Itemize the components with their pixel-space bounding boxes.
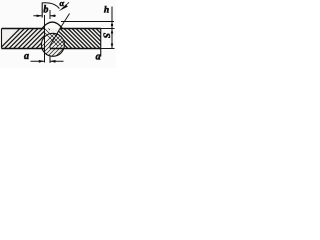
bevel extension above surface: [60, 14, 70, 29]
a dimension line: [31, 60, 64, 62]
arrowhead down to plate bottom: [111, 44, 114, 49]
svg-text:a: a: [96, 52, 101, 63]
b right arrowhead: [50, 15, 55, 18]
plate left edge: [1, 29, 3, 49]
a dimension: left extension line (groove edge extended): [44, 49, 46, 63]
a left arrowhead: [39, 60, 45, 63]
plate right edge (extended below): [100, 29, 102, 57]
svg-text:h: h: [104, 5, 109, 15]
plate bottom edges: [2, 48, 101, 50]
cap-top extension line: [61, 21, 114, 23]
vertical dimension line: [111, 7, 113, 49]
right plate hatch: [46, 27, 126, 51]
b dimension: left extension line: [41, 3, 43, 18]
arrowhead up to plate top: [111, 29, 114, 34]
a right arrowhead: [50, 60, 56, 63]
svg-text:b: b: [43, 5, 48, 16]
right extension line (plate bottom): [101, 48, 115, 50]
svg-text:α: α: [60, 0, 65, 8]
weld cap outline: [42, 22, 63, 28]
right extension line (plate top): [101, 28, 115, 30]
groove left edge upper extension: [44, 15, 46, 29]
plate body tint: [2, 29, 101, 49]
a dimension: right extension line: [49, 57, 51, 64]
left plate hatch: [0, 27, 67, 51]
h arrowhead down at plate top: [111, 24, 113, 29]
groove left edge (vertical): [44, 29, 46, 49]
groove right bevel and root face: [50, 29, 60, 49]
b dimension: right extension line: [49, 10, 51, 19]
weld cap fill: [42, 22, 63, 28]
alpha arrowhead: [59, 4, 68, 11]
svg-text:S: S: [100, 33, 110, 38]
svg-text:a: a: [24, 51, 29, 62]
plate top edges: [2, 28, 101, 30]
h arrowhead up at cap-top level: [111, 22, 113, 27]
weld nugget circle: [41, 33, 64, 56]
weld nugget fill: [41, 33, 64, 56]
weld groove gap fill: [45, 29, 51, 49]
b left arrowhead: [37, 15, 42, 18]
alpha dimension arc: [42, 3, 59, 9]
alpha leader stub: [66, 2, 69, 5]
weld cross hatch: [28, 16, 94, 58]
b dimension line: [33, 15, 55, 17]
